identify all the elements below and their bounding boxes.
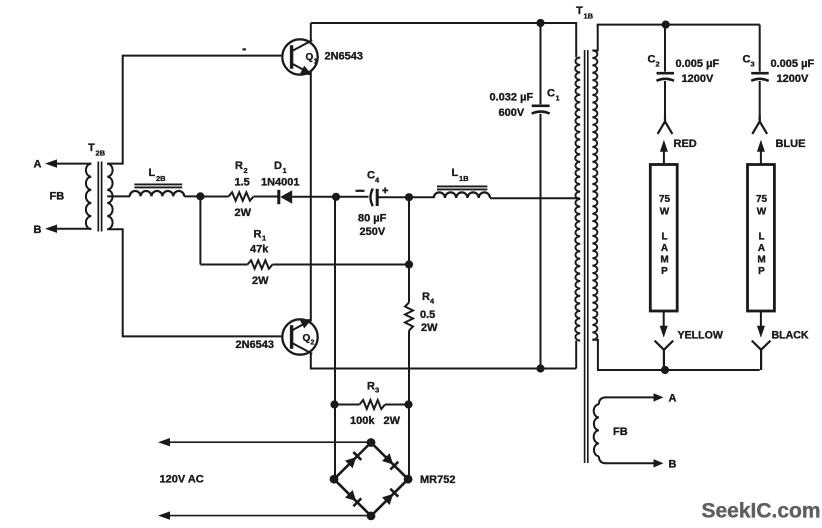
wire Q2 emitter to bottom rail: [311, 353, 576, 369]
wire FB bottom to B: [605, 462, 655, 464]
terminal B arrow (FB): [654, 459, 664, 467]
transformer T1B secondary bottom lead: [592, 340, 759, 370]
capacitor C1 top lead: [540, 23, 542, 104]
svg-text:1200V: 1200V: [682, 73, 714, 85]
node B label (FB): [669, 459, 677, 471]
AC input line 1: [158, 438, 371, 446]
svg-text:2: 2: [311, 340, 315, 347]
winding FB label (T2B): [50, 191, 65, 203]
svg-text:L: L: [452, 167, 459, 179]
junction dot (R1/R4 node): [405, 260, 413, 268]
capacitor C4: [371, 189, 378, 207]
svg-text:A: A: [669, 393, 677, 405]
svg-text:R: R: [235, 160, 243, 172]
svg-text:T: T: [576, 5, 583, 17]
capacitor C1 label: [547, 88, 560, 103]
svg-text:M: M: [660, 255, 668, 266]
svg-text:4: 4: [375, 176, 380, 185]
transformer T2B label: [88, 142, 106, 158]
wire R3 right lead: [385, 404, 409, 406]
svg-text:2W: 2W: [421, 322, 438, 334]
wire FB top to A: [605, 396, 655, 398]
capacitor C2 value: [676, 58, 720, 70]
wire C4 to L1B: [377, 196, 434, 198]
svg-text:C: C: [743, 54, 751, 66]
watermark SeekIC.com: [702, 500, 821, 523]
label 120V AC: [160, 474, 204, 486]
resistor R1 value 47k: [250, 244, 269, 256]
wire L1B to T1B primary tap: [490, 197, 580, 199]
svg-text:W: W: [757, 207, 767, 218]
resistor R1 label: [254, 229, 267, 243]
wire R1 branch right segment: [273, 264, 410, 266]
junction node (L2B / R2 / R1 branch): [196, 192, 204, 200]
bridge arm bottom-left: [334, 479, 371, 516]
resistor R2 label: [235, 160, 248, 175]
capacitor C4 minus sign: [356, 190, 365, 192]
svg-text:2W: 2W: [384, 415, 401, 427]
wire R2 to D1: [254, 196, 278, 198]
terminal A arrow (FB): [654, 393, 664, 401]
svg-text:2B: 2B: [156, 174, 166, 183]
svg-text:2W: 2W: [235, 207, 252, 219]
transformer T1B secondary winding: [592, 51, 597, 340]
bridge node bottom: [367, 512, 376, 521]
diode bridge bottom-right: [382, 489, 398, 505]
capacitor C3 rating: [777, 73, 809, 85]
svg-text:BLUE: BLUE: [776, 138, 806, 150]
svg-text:120V AC: 120V AC: [160, 474, 204, 486]
svg-text:250V: 250V: [360, 226, 386, 238]
svg-text:3: 3: [375, 386, 379, 395]
AC input line 2: [158, 511, 371, 519]
capacitor C3 value: [771, 58, 815, 70]
inductor L2B label: [149, 167, 167, 183]
connector YELLOW male arrow: [660, 311, 668, 338]
bridge node right: [404, 475, 413, 484]
junction dot R3 right: [404, 400, 412, 408]
svg-text:0.032 µF: 0.032 µF: [490, 92, 534, 104]
svg-text:R: R: [367, 381, 375, 393]
resistor R3: [360, 400, 385, 409]
lamp 2 box: [748, 165, 775, 312]
wire T2B center tap to L2B: [107, 195, 130, 197]
wire L2B to node: [184, 195, 201, 197]
inductor L2B core bars: [134, 184, 182, 187]
resistor R1: [248, 260, 273, 268]
transformer T1B primary bottom lead: [575, 341, 577, 369]
diode bridge top-left: [345, 452, 361, 468]
transistor Q2 label Q2: [303, 333, 315, 347]
svg-text:L: L: [661, 232, 667, 243]
junction dot C1 bottom: [536, 364, 544, 372]
connector RED female: [658, 115, 673, 134]
transistor Q1: [282, 39, 317, 75]
node B label: [34, 224, 42, 236]
winding FB label (T1B): [613, 426, 628, 438]
wire node down to R1 branch: [199, 196, 201, 264]
svg-text:R: R: [254, 229, 262, 241]
resistor R1 rating 2W: [252, 275, 269, 287]
junction dot C2 top: [662, 21, 670, 29]
svg-text:C: C: [547, 88, 555, 100]
connector BLACK male arrow: [757, 311, 765, 338]
transformer T2B secondary winding: [107, 164, 112, 230]
resistor R4 rating 2W: [421, 322, 438, 334]
inductor L1B core bars: [437, 186, 487, 189]
capacitor C2 bottom lead: [664, 81, 666, 122]
transformer T2B primary winding (FB): [86, 164, 91, 230]
diode D1 value 1N4001: [261, 177, 300, 189]
svg-text:1.5: 1.5: [235, 177, 250, 189]
lamp 1 box: [650, 165, 677, 312]
transformer T1B secondary top lead: [592, 25, 759, 51]
resistor R4: [405, 303, 413, 331]
capacitor C1: [532, 106, 550, 114]
svg-text:P: P: [758, 266, 765, 277]
svg-text:YELLOW: YELLOW: [678, 330, 723, 342]
wire top rail (Q1 collector to T1B primary): [311, 23, 576, 58]
capacitor C2 rating: [682, 73, 714, 85]
wire node to R2: [200, 196, 228, 198]
bridge arm top-left: [334, 443, 371, 480]
svg-text:D: D: [274, 160, 282, 172]
diode D1 label: [274, 160, 287, 175]
wire T2B secondary top to Q1 base: [107, 56, 283, 164]
svg-text:2N6543: 2N6543: [236, 339, 275, 351]
bridge arm bottom-right: [371, 479, 408, 516]
capacitor C3 bottom lead: [759, 81, 761, 122]
svg-text:1N4001: 1N4001: [261, 177, 300, 189]
connector RED male arrow: [660, 140, 668, 165]
svg-text:BLACK: BLACK: [772, 330, 809, 342]
svg-text:B: B: [34, 224, 42, 236]
svg-text:B: B: [669, 459, 677, 471]
resistor R3 label: [367, 381, 379, 395]
svg-text:FB: FB: [613, 426, 628, 438]
svg-text:0.005 µF: 0.005 µF: [771, 58, 815, 70]
svg-text:80 µF: 80 µF: [358, 213, 387, 225]
svg-text:1: 1: [556, 94, 560, 103]
svg-text:P: P: [661, 266, 668, 277]
terminal B arrow: [45, 225, 91, 233]
bridge arm top-right: [371, 443, 408, 480]
svg-text:1: 1: [314, 59, 318, 66]
winding FB (T1B feedback): [594, 397, 606, 463]
capacitor C1 rating 600V: [499, 107, 525, 119]
svg-text:RED: RED: [674, 138, 697, 150]
capacitor C4 rating 250V: [360, 226, 386, 238]
node A label (FB): [669, 393, 677, 405]
bridge node left: [330, 475, 339, 484]
svg-text:C: C: [367, 170, 375, 182]
connector YELLOW female: [655, 341, 674, 370]
capacitor C3 top lead: [759, 25, 761, 72]
wire R4 to bridge right: [408, 331, 410, 480]
wire R3 left lead: [335, 404, 360, 406]
svg-text:1: 1: [262, 234, 266, 243]
svg-text:75: 75: [659, 194, 671, 205]
connector BLUE female: [752, 115, 767, 134]
svg-text:1B: 1B: [584, 12, 594, 21]
node A label: [34, 159, 42, 171]
diode D1: [279, 190, 292, 204]
lamp 2 text: [756, 194, 768, 277]
wire D1 node down to bridge left: [334, 197, 336, 479]
transformer T1B primary winding: [575, 58, 580, 341]
capacitor C3 label: [743, 54, 755, 69]
svg-text:L: L: [758, 232, 764, 243]
junction dot (yellow lead node): [661, 366, 669, 374]
diode bridge top-right: [382, 453, 398, 469]
svg-text:75: 75: [756, 194, 768, 205]
wire D1 to C4: [292, 196, 368, 198]
junction dot R3 left: [330, 400, 338, 408]
inductor L1B label: [452, 167, 470, 183]
svg-text:47k: 47k: [250, 244, 269, 256]
inductor L2B: [130, 191, 185, 196]
svg-text:2W: 2W: [252, 275, 269, 287]
svg-text:1B: 1B: [459, 174, 469, 183]
capacitor C1 bottom lead: [540, 114, 542, 369]
capacitor C2 top lead: [664, 25, 666, 72]
svg-text:C: C: [648, 54, 656, 66]
terminal A arrow: [45, 159, 91, 167]
stray mark: [243, 48, 246, 50]
junction dot (C4/R4 node): [405, 193, 413, 201]
label YELLOW: [678, 330, 723, 342]
svg-text:A: A: [758, 243, 765, 254]
wire T2B secondary bottom to Q2 base: [107, 229, 283, 336]
svg-text:2B: 2B: [96, 149, 106, 158]
svg-text:A: A: [661, 243, 668, 254]
label MR752: [420, 474, 455, 486]
svg-text:2: 2: [244, 166, 248, 175]
capacitor C4 label: [367, 170, 380, 185]
svg-text:0.005 µF: 0.005 µF: [676, 58, 720, 70]
svg-text:600V: 600V: [499, 107, 525, 119]
label 2N6543 (Q1): [325, 51, 364, 63]
wire Q1 collector to top rail: [310, 23, 312, 41]
svg-text:2N6543: 2N6543: [325, 51, 364, 63]
wire R1 branch left segment: [200, 264, 247, 266]
svg-text:M: M: [757, 255, 765, 266]
capacitor C4 value 80uF: [358, 213, 387, 225]
transformer T1B label: [576, 5, 594, 21]
wire Q1 emitter to Q2 collector: [310, 72, 312, 322]
connector BLUE male arrow: [757, 140, 765, 165]
label 2N6543 (Q2): [236, 339, 275, 351]
wire R4 node down: [408, 197, 410, 302]
connector BLACK female: [752, 341, 771, 370]
svg-text:L: L: [149, 167, 156, 179]
svg-text:Q: Q: [306, 52, 314, 63]
svg-text:R: R: [422, 291, 430, 303]
label BLACK: [772, 330, 809, 342]
diode bridge bottom-left: [345, 490, 361, 506]
capacitor C2: [657, 73, 675, 81]
transformer T1B core: [585, 50, 588, 463]
capacitor C2 label: [648, 54, 660, 69]
svg-text:MR752: MR752: [420, 474, 455, 486]
svg-text:T: T: [88, 142, 95, 154]
transistor Q2: [282, 319, 317, 355]
svg-text:W: W: [660, 207, 670, 218]
transformer T2B core: [98, 162, 101, 232]
resistor R4 label: [422, 291, 435, 306]
resistor R3 rating 2W: [384, 415, 401, 427]
resistor R2 value 1.5: [235, 177, 250, 189]
svg-text:3: 3: [751, 60, 755, 69]
svg-text:A: A: [34, 159, 42, 171]
svg-text:4: 4: [430, 297, 435, 306]
capacitor C4 plus sign: [382, 187, 388, 193]
transistor Q1 label Q1: [306, 52, 318, 66]
capacitor C1 value 0.032uF: [490, 92, 534, 104]
svg-text:SeekIC.com: SeekIC.com: [702, 500, 821, 523]
svg-text:0.5: 0.5: [420, 309, 435, 321]
resistor R2 rating 2W: [235, 207, 252, 219]
label BLUE: [776, 138, 806, 150]
svg-text:100k: 100k: [350, 415, 375, 427]
svg-text:1: 1: [283, 166, 287, 175]
svg-text:1200V: 1200V: [777, 73, 809, 85]
svg-text:2: 2: [656, 60, 660, 69]
resistor R3 value 100k: [350, 415, 375, 427]
inductor L1B: [434, 192, 490, 198]
capacitor C3: [751, 73, 769, 81]
svg-text:FB: FB: [50, 191, 65, 203]
resistor R4 value 0.5: [420, 309, 435, 321]
svg-text:Q: Q: [303, 333, 311, 344]
bridge node top: [367, 438, 376, 447]
label RED: [674, 138, 697, 150]
resistor R2: [229, 192, 254, 200]
junction dot (D1/C4 node): [332, 193, 340, 201]
lamp 1 text: [659, 194, 671, 277]
junction dot C1 top: [536, 19, 544, 27]
